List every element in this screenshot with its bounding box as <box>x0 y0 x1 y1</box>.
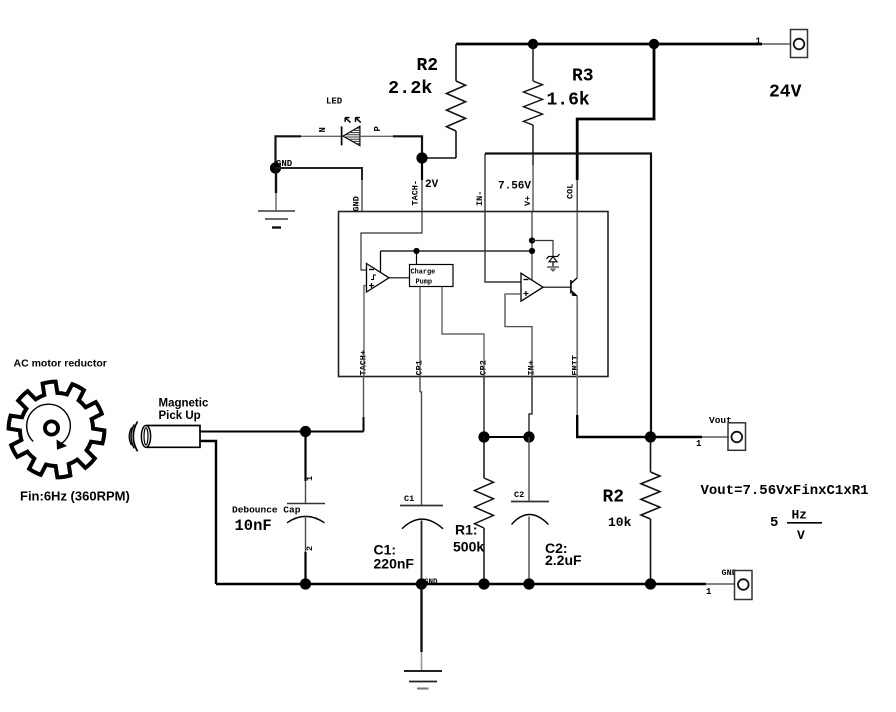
svg-text:R1:: R1: <box>455 522 478 538</box>
junction dot V+ zener branch <box>529 237 535 243</box>
node GND junction <box>270 162 281 173</box>
svg-text:220nF: 220nF <box>374 556 415 572</box>
internal wire emitter to EMIT pin <box>576 296 578 377</box>
svg-text:V+: V+ <box>523 196 533 206</box>
svg-text:COL: COL <box>566 184 576 199</box>
wire V+ to zener <box>532 241 553 257</box>
svg-text:AC motor reductor: AC motor reductor <box>14 358 107 370</box>
svg-text:Pick Up: Pick Up <box>159 410 201 422</box>
svg-text:7.56V: 7.56V <box>498 181 531 193</box>
node debounce cap top <box>300 426 311 437</box>
wire R2 bottom to TACH- node <box>422 157 456 159</box>
node TACH- junction <box>416 152 427 163</box>
internal wire TACH+ to op-amp plus input <box>364 286 367 378</box>
node Vout junction <box>645 431 656 442</box>
svg-text:1: 1 <box>305 476 315 481</box>
wire LED cathode to GND node <box>301 135 342 137</box>
node debounce bottom <box>300 578 311 589</box>
connector J2 Vout <box>728 423 746 451</box>
node R1 top <box>478 431 489 442</box>
wire supply to charge pump top <box>416 251 418 265</box>
svg-text:10nF: 10nF <box>235 517 272 535</box>
connector J3 GND <box>735 571 753 600</box>
internal wire IN+ to op-amp plus input <box>505 294 532 377</box>
svg-text:TACH-: TACH- <box>411 180 421 206</box>
magnetic pickup sensor <box>129 422 200 452</box>
wire TACH+ pin down <box>363 377 365 417</box>
transistor Q1 <box>571 278 577 296</box>
charge pump block <box>410 265 454 287</box>
5 Hz per V annotation <box>770 508 822 544</box>
wire pickup to TACH+ <box>200 431 364 433</box>
svg-text:Pump: Pump <box>416 279 433 287</box>
debounce capacitor <box>287 432 325 585</box>
svg-text:1: 1 <box>706 587 712 597</box>
svg-text:2: 2 <box>305 546 315 551</box>
internal wire COL pin to collector <box>576 212 578 278</box>
node C2 bottom <box>523 578 534 589</box>
LED D1 <box>341 118 361 146</box>
TACH- pin wire <box>421 158 423 180</box>
svg-text:R2: R2 <box>603 488 625 508</box>
internal wire TACH- to op-amp minus input <box>361 212 422 270</box>
svg-text:5: 5 <box>770 515 778 531</box>
gear icon AC motor <box>9 382 105 478</box>
svg-text:V: V <box>797 528 805 543</box>
svg-text:1: 1 <box>696 439 702 449</box>
junction node at COL branch <box>649 39 659 49</box>
node C1 bottom GND <box>416 578 427 589</box>
svg-text:24V: 24V <box>769 83 802 103</box>
svg-text:IN-: IN- <box>475 191 485 206</box>
op-amp U1B output buffer <box>521 273 543 301</box>
wire EMIT to Vout node <box>576 377 578 415</box>
junction node at R3 top <box>528 39 538 49</box>
svg-text:R2: R2 <box>417 56 439 76</box>
feedback wire IN- to Vout node <box>485 154 651 438</box>
internal supply rail <box>381 251 533 272</box>
svg-text:10k: 10k <box>608 515 632 530</box>
capacitor C2 <box>511 437 549 584</box>
svg-text:Fin:6Hz (360RPM): Fin:6Hz (360RPM) <box>20 489 130 504</box>
ground symbol bottom <box>404 584 442 689</box>
svg-text:N: N <box>318 127 328 132</box>
wire op-amp U1A output to charge pump <box>389 277 410 279</box>
wire CP2 pin down to R1 <box>483 377 485 437</box>
resistor R2 10k <box>641 437 660 584</box>
svg-text:Charge: Charge <box>411 269 436 277</box>
svg-text:LED: LED <box>326 97 343 107</box>
svg-text:500k: 500k <box>453 539 484 555</box>
svg-text:C2: C2 <box>514 490 524 500</box>
junction dot V+ supply rail <box>529 248 535 254</box>
24V power rail wire <box>456 43 790 46</box>
svg-text:2.2uF: 2.2uF <box>545 552 582 568</box>
internal wire charge pump to CP2 <box>442 287 484 378</box>
svg-text:1: 1 <box>756 37 762 47</box>
IC U1 LM2907 box <box>339 212 609 377</box>
svg-text:GND: GND <box>424 579 438 587</box>
svg-text:Vout=7.56VxFinxC1xR1: Vout=7.56VxFinxC1xR1 <box>701 483 869 499</box>
node C2 top <box>523 431 534 442</box>
svg-text:Debounce Cap: Debounce Cap <box>232 505 301 516</box>
svg-text:C1: C1 <box>404 494 414 504</box>
node R1 bottom <box>478 578 489 589</box>
heavy wire 24V rail to COL pin <box>577 44 654 180</box>
svg-text:EMIT: EMIT <box>571 355 581 375</box>
wire GND node to IC GND pin <box>276 168 363 180</box>
op-amp U1A input comparator <box>367 264 390 293</box>
wire IN+ pin down to C2 <box>529 377 532 437</box>
svg-text:P: P <box>373 126 383 132</box>
svg-text:Hz: Hz <box>792 508 808 523</box>
svg-text:Magnetic: Magnetic <box>159 398 209 410</box>
svg-text:GND: GND <box>352 196 362 211</box>
svg-text:1.6k: 1.6k <box>547 91 590 111</box>
IN- pin wire to op-amp U1B minus input <box>485 154 521 283</box>
resistor R2 2.2k <box>447 44 466 158</box>
wire pickup return to ground rail <box>200 441 216 584</box>
svg-text:2V: 2V <box>425 179 439 191</box>
node R2 bottom <box>645 578 656 589</box>
ground symbol top-left <box>258 168 295 228</box>
V+ pin internal wire <box>531 212 533 280</box>
internal wire charge pump to CP1 <box>419 287 421 378</box>
svg-text:R3: R3 <box>572 67 594 87</box>
wire R1 top to C2 top <box>484 436 529 438</box>
resistor R1 500k <box>475 437 494 584</box>
connector J1 24V <box>791 30 808 58</box>
junction dot supply to charge pump <box>413 248 419 254</box>
wire LED anode to TACH- node <box>360 135 393 137</box>
wire op-amp U1B output to transistor base <box>543 286 570 288</box>
wire R3 bottom to V+ pin <box>532 165 534 212</box>
capacitor C1 <box>400 377 443 584</box>
ground rail <box>216 583 706 586</box>
zener diode D2 <box>547 254 560 272</box>
wire Vout node to connector <box>651 436 702 438</box>
svg-text:2.2k: 2.2k <box>388 78 432 99</box>
resistor R3 1.6k <box>524 44 543 165</box>
